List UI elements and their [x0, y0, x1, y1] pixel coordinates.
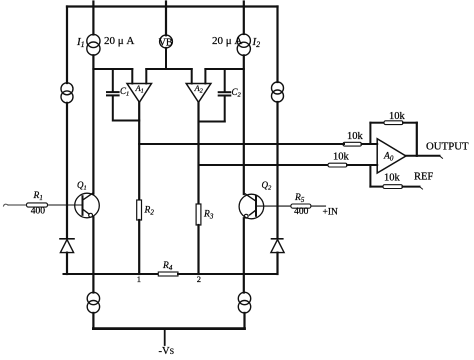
wire long sense 1 (A1 out to A0)	[139, 143, 343, 145]
source VB	[160, 35, 173, 48]
current source I2 (20uA, double circle)	[237, 34, 250, 47]
wire C2 to A2 output	[199, 121, 225, 123]
svg-text:REF: REF	[414, 171, 433, 182]
svg-text:A0: A0	[383, 152, 394, 163]
wire VB to A1/A2 inputs tee	[165, 48, 167, 69]
wire Q2 base to node	[256, 205, 291, 207]
wire A2 output down to node 2	[197, 102, 199, 204]
resistor R4	[158, 272, 178, 276]
wire REF right	[403, 186, 420, 188]
wire to -Vs rail left	[92, 313, 94, 329]
wire bottom left segment	[64, 273, 159, 275]
svg-text:C1: C1	[120, 86, 129, 98]
op-amp A1	[127, 84, 152, 103]
wire feedback right and down	[403, 122, 417, 124]
wire A1 left input node	[93, 68, 132, 70]
op-amp A0	[377, 139, 406, 173]
input lead -IN tick	[4, 204, 9, 206]
current source IE2 (bottom right, double circle)	[238, 292, 250, 304]
wire long sense 2 (A2 out to A0)	[199, 164, 329, 166]
svg-text:A1: A1	[135, 83, 144, 95]
wire -IN to R1	[8, 204, 27, 206]
svg-text:Q1: Q1	[77, 180, 87, 192]
svg-text:I1: I1	[76, 36, 85, 49]
svg-text:OUTPUT: OUTPUT	[426, 140, 469, 152]
wire I2 to Q2 collector	[243, 55, 245, 194]
wire left vertical upper (rail to current source)	[66, 7, 68, 84]
wire C1 to A1 output	[113, 120, 139, 122]
wire REF down	[369, 165, 371, 187]
current source I1 (20uA, double circle)	[87, 34, 100, 47]
svg-text:1: 1	[137, 274, 141, 284]
resistor RB 10k (A0 bottom input)	[328, 163, 347, 167]
wire right vertical upper (rail to current source)	[276, 7, 278, 83]
wire VB branch from rail	[165, 2, 167, 36]
resistor RA 10k (A0 top input)	[343, 142, 362, 146]
resistor RR 10k (ref)	[383, 185, 403, 189]
wire -Vs stub	[164, 329, 166, 345]
wire RA to A0	[362, 143, 378, 145]
svg-text:R5: R5	[294, 193, 305, 204]
wire I1 branch from rail	[92, 2, 94, 35]
svg-text:2: 2	[197, 274, 201, 284]
svg-text:R4: R4	[162, 261, 173, 272]
wire top rail	[67, 5, 278, 7]
svg-text:R2: R2	[144, 206, 155, 217]
wire A1 output down to node 1	[138, 102, 140, 200]
svg-text:20 μ A: 20 μ A	[212, 35, 242, 47]
svg-text:A2: A2	[194, 83, 203, 95]
wire right vertical lower	[276, 102, 278, 238]
wire R1 to Q1 base	[48, 204, 83, 206]
wire Q2 emitter down	[243, 218, 245, 292]
wire RB to A0	[347, 164, 377, 166]
resistor RF 10k (feedback)	[384, 121, 403, 125]
current source IE1 (bottom left, double circle)	[87, 292, 99, 304]
svg-text:R3: R3	[203, 210, 214, 221]
svg-text:10k: 10k	[384, 173, 401, 184]
resistor R1 (400)	[27, 203, 48, 207]
svg-text:400: 400	[31, 207, 46, 217]
svg-text:-VS: -VS	[159, 346, 175, 357]
capacitor C1	[112, 69, 114, 91]
diode D1	[60, 238, 74, 240]
svg-text:Q2: Q2	[262, 180, 273, 192]
resistor R5 (400)	[291, 204, 311, 208]
op-amp A2	[186, 84, 211, 103]
wire -Vs rail	[93, 327, 244, 330]
resistor R3	[196, 204, 201, 225]
current source IB1 (left bias, double circle)	[61, 83, 73, 95]
svg-text:+IN: +IN	[323, 208, 339, 218]
current source IB2 (right bias, double circle)	[272, 82, 284, 94]
svg-text:R1: R1	[33, 191, 43, 202]
wire I2 branch from rail	[243, 2, 245, 35]
wire A2 right input node	[205, 68, 243, 70]
wire I1 to Q1 collector	[92, 55, 94, 193]
wire feedback up	[369, 123, 371, 144]
svg-text:C2: C2	[232, 87, 242, 99]
wire left vertical lower (current source to diode)	[66, 103, 68, 239]
wire Q1 emitter down	[92, 217, 94, 292]
resistor R2	[137, 200, 142, 220]
svg-text:10k: 10k	[347, 131, 364, 142]
svg-text:400: 400	[294, 207, 309, 217]
wire diode2 to bottom wire	[276, 253, 278, 274]
wire diode to bottom wire	[66, 253, 68, 274]
svg-text:I2: I2	[252, 36, 261, 49]
diode D2	[272, 238, 283, 240]
svg-text:10k: 10k	[389, 111, 406, 122]
wire R5 to +IN	[311, 205, 326, 207]
capacitor C2	[224, 69, 226, 91]
wire bottom right segment	[178, 273, 278, 275]
wire A0 output	[406, 155, 440, 157]
svg-text:20 μ A: 20 μ A	[104, 35, 134, 47]
svg-text:10k: 10k	[333, 152, 350, 163]
wire to -Vs rail right	[243, 313, 245, 329]
